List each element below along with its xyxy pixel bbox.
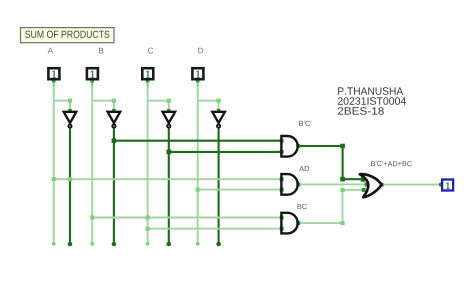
wire: C' vertical from inverter U3 output (low) [168,128,170,243]
annotation text 2BES-18 [338,107,384,115]
input label B [99,48,103,54]
wire: branch D to inverter U4 input [198,101,219,111]
inverter U1 (NOT gate, column A) [64,112,77,128]
input label D [198,48,203,54]
gate label B'C' [299,121,311,126]
pin A value 1 [52,71,56,78]
pin C value 1 [146,71,150,78]
output label B'C'+AD+BC [371,161,412,166]
gate label BC [298,204,307,209]
input pin A [48,68,59,79]
wire end dots (high) [52,242,200,246]
pin D value 1 [196,71,200,78]
port squares medium green [52,79,384,231]
output pin value 1 [446,182,449,189]
wire: D to AND gate G2 bottom input (high) [198,189,282,191]
OR gate G4 [360,174,382,197]
wire: C to AND gate G3 bottom input (high) [148,228,282,230]
input pin C [142,68,153,79]
title text SUM OF PRODUCTS [25,31,109,38]
annotation text P.THANUSHA [338,87,403,95]
output pin [442,180,453,191]
pin output stubs bright [54,81,198,87]
wire: branch C to inverter U3 input [148,101,169,111]
wire: C' to AND gate G1 bottom input (low) [169,151,282,153]
wire: input D vertical (high) [197,80,199,243]
junction squares bright (high) [52,99,345,231]
AND gate G3 (BC) [281,213,297,234]
inverter U2 (NOT gate, column B) [108,112,121,128]
input label C [148,48,153,54]
wire: input A vertical (high) [53,80,55,243]
wire: AND G1 output B'C' to OR gate top input (low) [298,146,364,179]
AND gate G1 (B'C') [281,136,297,157]
wire: input B vertical (high) [91,80,93,243]
pin B value 1 [91,71,95,78]
wire: B' vertical from inverter U2 output (low) [113,128,115,243]
wire: branch B to inverter U2 input [92,101,114,111]
wire: B to AND gate G3 top input (high) [92,217,281,219]
input pin B [87,68,98,79]
inverter U4 (NOT gate, column D) [212,112,225,128]
annotation text 20231IST4 [338,97,406,105]
input pin D [192,68,203,79]
wire: B' to AND gate G1 top input (low) [114,140,282,142]
wire: branch A to inverter U1 input [54,101,70,111]
title label box SUM OF PRODUCTS [21,28,115,43]
wire end dots (low) [68,242,221,247]
input label A [48,48,53,54]
wire: A' vertical from inverter U1 output (low) [69,128,71,243]
wire: D' vertical from inverter U4 output (low) [218,128,220,243]
wire: AND G2 output AD to OR gate middle input (high) [298,183,367,185]
AND gate G2 (AD) [281,174,297,195]
wire: input C vertical (high) [147,80,149,243]
wire: A to AND gate G2 top input (high) [54,178,282,180]
output port dot [439,183,443,187]
gate label AD [299,166,309,171]
wire: OR gate output to output pin (high) [382,184,441,186]
junction squares dark (low) [112,138,366,181]
wire: AND G3 output BC to OR gate bottom input (high) [298,190,364,223]
inverter U3 (NOT gate, column C) [163,112,176,128]
